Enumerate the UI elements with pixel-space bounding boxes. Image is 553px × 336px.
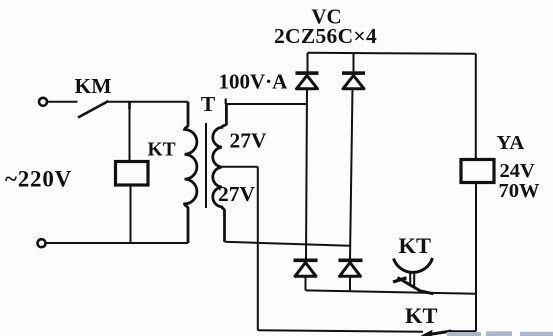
diode D4 triangle	[340, 263, 361, 277]
wire: top terminal to KM switch	[47, 101, 78, 103]
wire: KM to transformer primary top	[108, 101, 189, 103]
wire: rail1 top segment	[307, 53, 309, 72]
diode D1 triangle	[297, 76, 318, 89]
diode D2 cathode bar	[342, 71, 365, 75]
diode D2 triangle	[343, 76, 364, 89]
switch KM blade	[78, 101, 109, 118]
wire: rail2 bottom segment	[349, 276, 351, 291]
wire: secondary bottom to bridge (AC2)	[225, 242, 350, 246]
time-delay contact KT: moving blade	[398, 278, 434, 294]
transformer T secondary winding	[213, 104, 227, 242]
relay coil KT	[116, 162, 149, 186]
watermark block 3	[520, 332, 553, 336]
diode D4 cathode bar	[339, 259, 363, 263]
wire: bottom terminal to transformer primary bottom	[46, 242, 189, 244]
transformer core	[205, 123, 207, 208]
svg-text:KT: KT	[399, 233, 432, 258]
svg-text:YA: YA	[497, 132, 525, 154]
wire: rail1 middle segment (AC1 node)	[306, 89, 307, 259]
wire: bridge DC+ top rail	[308, 53, 476, 54]
diode D3 cathode bar	[294, 259, 318, 263]
wire: right rail top (DC+ to YA)	[475, 54, 477, 160]
watermark block 2	[486, 331, 512, 336]
watermark block 1	[447, 332, 481, 336]
wire: right rail bottom (YA to bottom)	[475, 183, 477, 332]
svg-text:KM: KM	[74, 74, 111, 98]
wire: center tap	[222, 166, 258, 168]
svg-text:~220V: ~220V	[5, 167, 72, 192]
wire: secondary top to bridge (100V·A winding lead)	[226, 103, 307, 105]
svg-text:2CZ56C×4: 2CZ56C×4	[274, 24, 377, 48]
contact KT bottom: blade with arrowhead	[429, 331, 452, 335]
svg-text:24V: 24V	[500, 160, 536, 182]
wire: bottom right segment to right rail	[448, 330, 476, 332]
solenoid coil YA	[461, 160, 494, 183]
svg-text:100V·A: 100V·A	[219, 70, 289, 94]
terminal: AC input top	[39, 98, 47, 106]
svg-text:KT: KT	[148, 140, 176, 161]
node: secondary lead tick	[225, 99, 227, 105]
time-delay contact KT: delay cup arc	[394, 258, 433, 272]
diode D3 triangle	[295, 263, 316, 277]
svg-text:T: T	[201, 92, 216, 116]
wire: bridge DC- rail to delay contact	[306, 290, 477, 293]
time-delay contact KT: fixed contact tick	[393, 278, 407, 282]
wire: bottom return (center tap to KT contact)	[258, 330, 423, 332]
wire: rail1 bottom segment	[305, 276, 307, 290]
svg-text:KT: KT	[405, 303, 438, 328]
terminal: AC input bottom	[38, 239, 46, 247]
wire: KT branch bottom	[130, 185, 132, 243]
svg-text:27V: 27V	[218, 182, 256, 206]
diode D1 cathode bar	[296, 71, 319, 75]
wire: KT branch top	[129, 102, 131, 162]
wire: rail2 top segment	[353, 53, 355, 71]
wire: center tap vertical drop	[257, 167, 259, 331]
time-delay contact KT: stem lines	[409, 274, 411, 286]
svg-text:70W: 70W	[499, 180, 541, 202]
svg-text:27V: 27V	[230, 129, 268, 153]
node: KM junction tick	[128, 102, 131, 109]
transformer T primary winding	[185, 102, 197, 243]
wire: rail2 middle segment (AC2 node)	[350, 89, 353, 259]
